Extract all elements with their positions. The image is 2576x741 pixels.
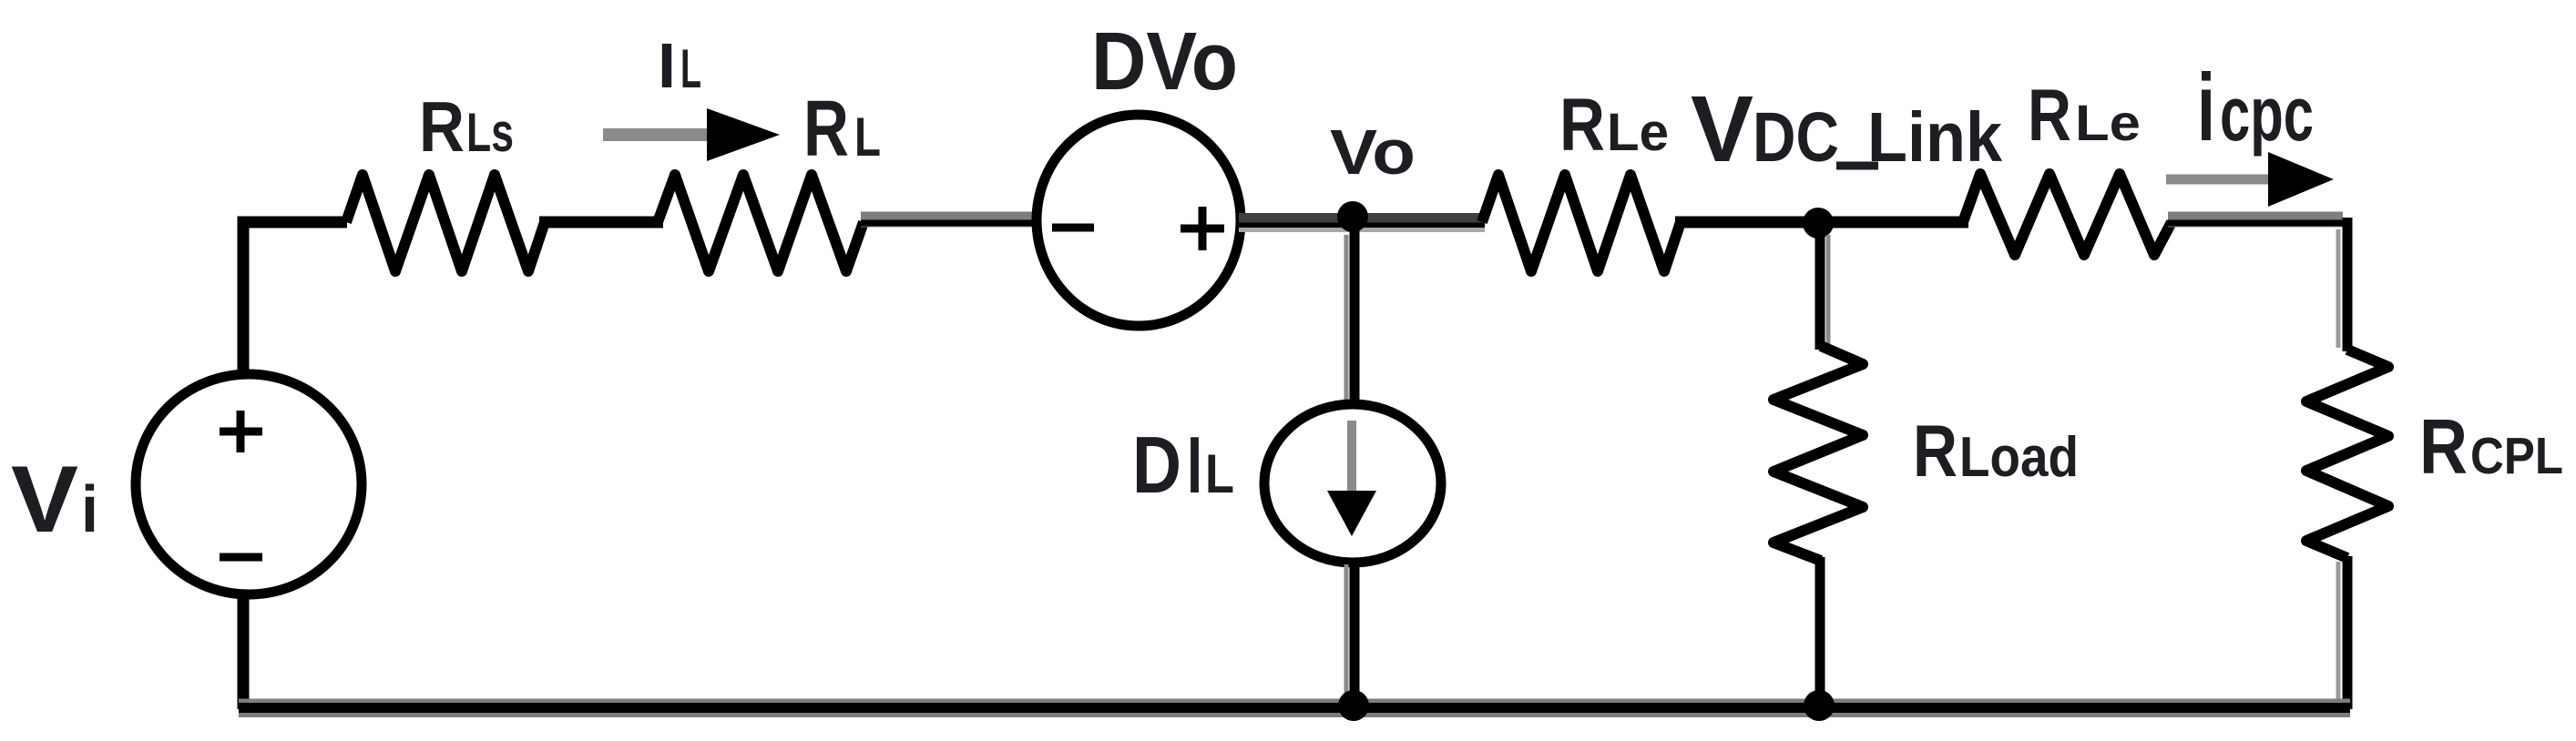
- label RCPL: [2419, 404, 2563, 491]
- wire: RLoad to bottom rail: [1815, 557, 1825, 709]
- resistor RLs: [346, 175, 545, 271]
- svg-text:DC: DC: [1753, 98, 1839, 177]
- svg-text:Link: Link: [1867, 98, 2002, 177]
- svg-text:R: R: [1913, 411, 1958, 492]
- label DIL: [1132, 420, 1234, 510]
- current arrow IL: [603, 108, 780, 161]
- wire: node VDC_Link down to RLoad: [1820, 228, 1828, 350]
- svg-text:R: R: [419, 86, 465, 167]
- svg-text:Load: Load: [1959, 426, 2079, 489]
- wire: DIL to bottom rail: [1346, 559, 1354, 709]
- wire: DVo to node Vo and to RLe (gray): [1239, 218, 1485, 230]
- label RLs: [419, 86, 514, 167]
- wire: RLe2 to right corner (gray): [2168, 219, 2348, 223]
- svg-text:D: D: [1132, 420, 1181, 510]
- wire: Vi bottom to bottom rail: [238, 594, 250, 709]
- wire: bottom rail: [239, 701, 2350, 716]
- svg-text:L: L: [854, 107, 881, 167]
- svg-text:cpc: cpc: [2220, 71, 2314, 157]
- svg-text:i: i: [2197, 55, 2215, 161]
- voltage source Vi: [136, 374, 362, 594]
- node Vo: [1337, 201, 1368, 232]
- svg-text:R: R: [803, 85, 849, 173]
- resistor RLe (second): [1963, 174, 2172, 255]
- svg-text:I: I: [1187, 420, 1202, 510]
- svg-text:Vo: Vo: [1330, 117, 1416, 188]
- svg-text:Le: Le: [1607, 103, 1669, 162]
- current arrow icpc: [2166, 152, 2334, 207]
- wire: Vi top to top rail and to RLs: [243, 222, 347, 377]
- resistor RLe (first): [1482, 175, 1681, 271]
- resistor RLoad: [1774, 346, 1863, 561]
- label VDC_Link: [1691, 76, 2002, 181]
- resistor RL: [658, 175, 864, 271]
- current source DIL: [1264, 404, 1441, 563]
- label Vi: [11, 447, 98, 553]
- label RLe (second): [2028, 75, 2141, 157]
- svg-text:V: V: [11, 447, 78, 553]
- svg-text:L: L: [680, 38, 701, 99]
- resistor RCPL: [2306, 350, 2388, 558]
- label RLoad: [1913, 411, 2079, 492]
- svg-text:Le: Le: [2075, 94, 2141, 151]
- wire: node Vo down to DIL: [1346, 222, 1354, 405]
- svg-text:Ls: Ls: [466, 102, 514, 163]
- label RL: [803, 85, 881, 173]
- voltage source DVo: [1037, 115, 1241, 326]
- node: bottom junction below DIL: [1338, 690, 1369, 721]
- wire: right branch vertical down to RCPL: [2338, 218, 2347, 351]
- label IL: [658, 30, 701, 101]
- wire: RCPL to bottom rail: [2338, 556, 2347, 709]
- svg-text:R: R: [2028, 75, 2071, 157]
- node VDC_Link: [1803, 208, 1834, 239]
- svg-text:i: i: [81, 473, 98, 546]
- svg-text:R: R: [1559, 84, 1605, 167]
- svg-text:I: I: [658, 30, 676, 101]
- svg-text:V: V: [1691, 76, 1753, 181]
- svg-text:R: R: [2419, 404, 2468, 491]
- node: bottom junction below RLoad: [1804, 690, 1835, 721]
- wire: RLe to RLe2 through node VDC_Link: [1675, 217, 1968, 228]
- svg-text:DVo: DVo: [1091, 16, 1238, 107]
- wire: RL to DVo (gray): [861, 219, 1038, 223]
- svg-text:CPL: CPL: [2470, 427, 2563, 485]
- svg-text:L: L: [1205, 443, 1234, 504]
- label RLe (first): [1559, 84, 1669, 167]
- wire: RLs to RL: [539, 217, 663, 228]
